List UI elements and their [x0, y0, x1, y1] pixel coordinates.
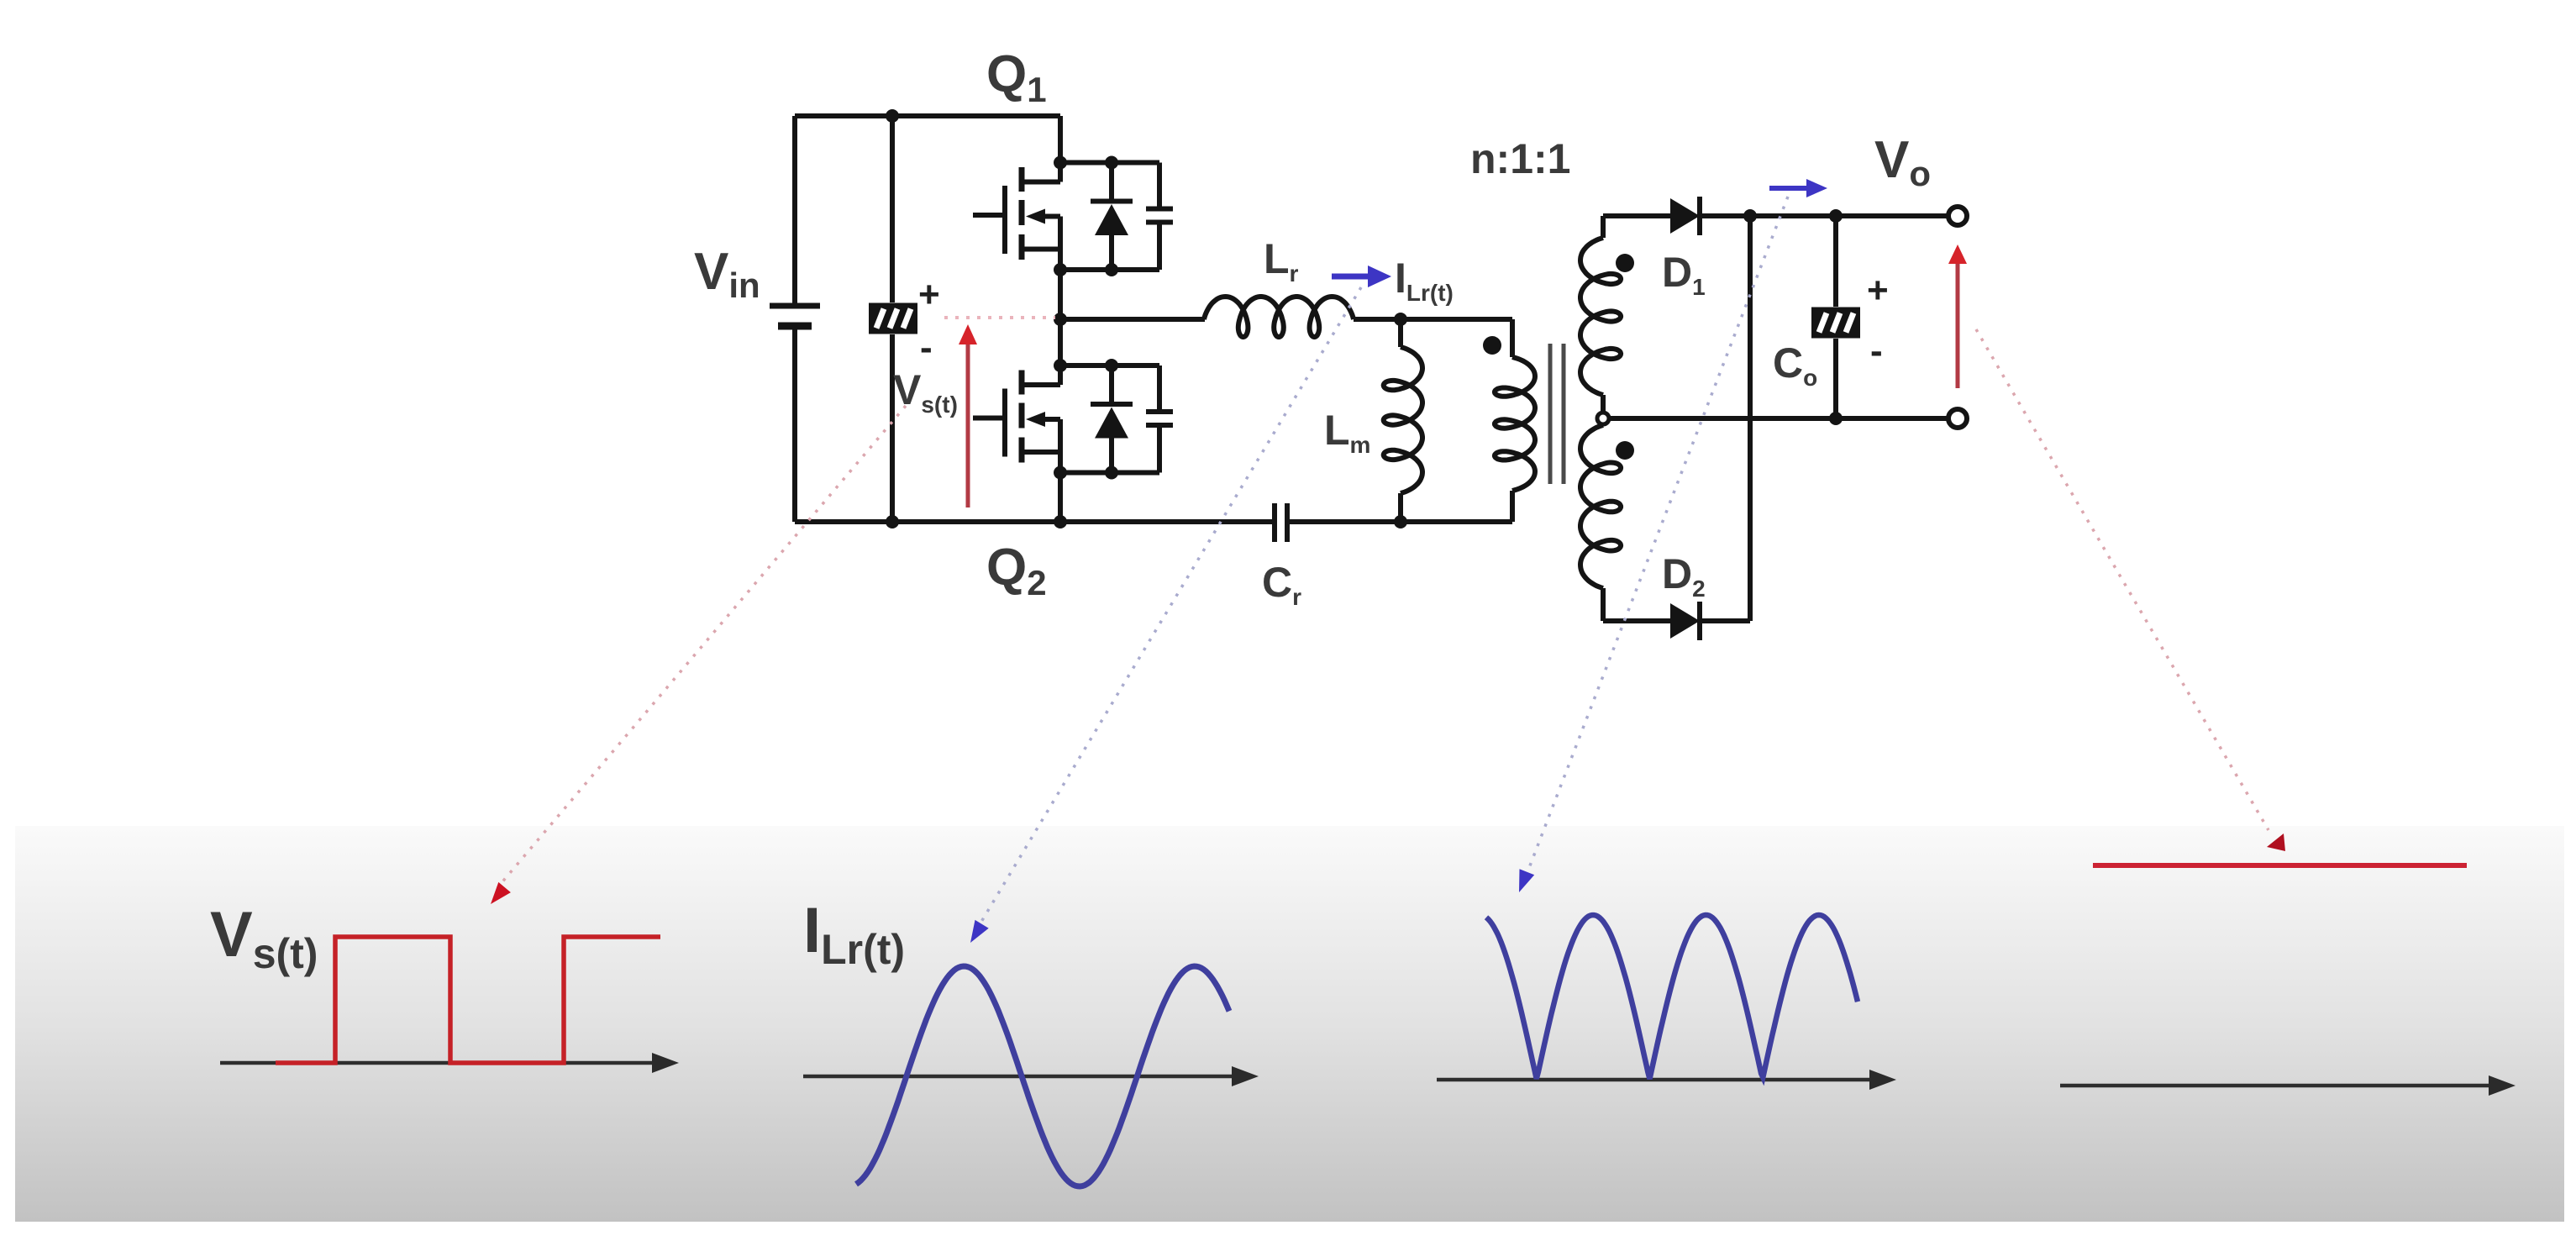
wire switch node to Lr	[1060, 317, 1205, 322]
battery Vin	[770, 306, 820, 326]
transformer secondary bottom winding	[1580, 425, 1621, 588]
waveform4 Vo flat line	[2093, 863, 2467, 868]
wire top rail	[795, 113, 1060, 118]
node Lm top	[1394, 313, 1407, 326]
transistor Q2 body diode	[1091, 365, 1133, 473]
node rectifier bus top	[1743, 209, 1757, 223]
phase dot primary	[1483, 336, 1501, 355]
transformer core	[1550, 344, 1564, 484]
node Co bottom	[1829, 412, 1843, 425]
svg-text:n:1:1: n:1:1	[1470, 135, 1570, 182]
phase dot secondary bottom	[1616, 441, 1634, 460]
bulk capacitor symbol	[869, 303, 917, 334]
arrow Io blue	[1769, 179, 1827, 197]
gradient band	[15, 826, 2564, 1222]
wire secondary bottom stub	[1601, 588, 1606, 621]
waveform3 axis	[1437, 1070, 1896, 1090]
junction dots Q2	[1054, 359, 1118, 480]
output terminal minus	[1948, 409, 1967, 428]
transformer primary winding	[1495, 357, 1535, 491]
capacitor Co symbol	[1811, 308, 1860, 339]
inductor Lr	[1204, 297, 1354, 337]
waveform3 rectified humps	[1486, 915, 1858, 1079]
capacitor Co branch wire	[1833, 216, 1838, 418]
svg-text:-: -	[920, 327, 933, 368]
wire between Q1 source and switch node	[1058, 270, 1063, 319]
phase dot secondary top	[1616, 254, 1634, 272]
node input bottom	[886, 515, 899, 528]
wire input left leg	[792, 116, 797, 303]
wire Lr to primary	[1354, 317, 1512, 322]
dotted line switch node	[944, 316, 1055, 319]
node Co top	[1829, 209, 1843, 223]
node Lm bottom	[1394, 515, 1407, 528]
dotted connector ILr to waveform2	[981, 287, 1361, 922]
transistor Q1 body diode	[1091, 163, 1133, 271]
wire D2 to rectifier bus	[1700, 618, 1750, 623]
wire secondary top to D1	[1603, 213, 1670, 218]
diode D1	[1670, 197, 1700, 235]
arrow ILr blue	[1332, 266, 1391, 287]
svg-text:+: +	[918, 274, 940, 315]
transformer secondary top stub	[1601, 216, 1606, 238]
svg-text:+: +	[1867, 270, 1889, 311]
transistor Q1 bottom rail	[1060, 267, 1159, 272]
wire D1 to output	[1700, 213, 1958, 218]
center tap terminal circle	[1597, 413, 1609, 424]
node input top	[886, 109, 899, 123]
inductor Lm branch	[1398, 319, 1403, 522]
capacitor Cr plates	[1275, 503, 1287, 542]
output terminal plus	[1948, 207, 1967, 225]
wire switch node to Q2 drain	[1058, 319, 1063, 385]
junction dots Q1	[1054, 156, 1118, 277]
diode D2	[1670, 602, 1700, 640]
waveform2 axis	[803, 1066, 1259, 1086]
dotted connector Vo to waveform4	[1976, 329, 2268, 830]
waveform4 axis	[2060, 1075, 2516, 1096]
wire bottom rail right of Cr	[1290, 519, 1512, 524]
arrow Vs(t) red	[959, 324, 977, 507]
wire secondary to center tap circle	[1601, 395, 1606, 413]
arrow Vo red	[1948, 245, 1967, 388]
transistor Q2 output capacitance	[1146, 365, 1173, 473]
inductor Lm coil	[1384, 347, 1422, 493]
center tap output wire	[1609, 416, 1958, 421]
transistor Q1 MOSFET symbol	[973, 167, 1060, 270]
dotted connector D to waveform3	[1527, 197, 1788, 872]
wire below battery	[792, 329, 797, 522]
waveform1 axis	[220, 1053, 679, 1073]
bulk capacitor branch wire	[890, 116, 895, 522]
transistor Q2 MOSFET symbol	[973, 371, 1060, 473]
wire Q2 source to bottom rail	[1058, 473, 1063, 523]
svg-text:-: -	[1870, 330, 1883, 371]
wire bottom rail left	[795, 519, 1272, 524]
transistor Q1 cell top rail	[1060, 160, 1159, 166]
wire secondary bottom to D2	[1603, 618, 1670, 623]
waveform1 Vs square wave	[276, 937, 660, 1063]
dotted connector Vs to waveform1	[500, 406, 906, 885]
switch node	[1054, 313, 1067, 326]
transistor Q2 cell top rail	[1060, 363, 1159, 368]
node bottom of leg	[1054, 515, 1067, 528]
transistor Q1 output capacitance	[1146, 163, 1173, 271]
transformer secondary top winding	[1580, 238, 1621, 395]
rectifier bus vertical wire	[1748, 216, 1753, 621]
half-bridge leg wire	[1058, 116, 1063, 182]
transformer primary stub wires	[1510, 319, 1515, 522]
transistor Q2 bottom rail	[1060, 471, 1159, 476]
waveform2 ILr sine	[856, 966, 1229, 1186]
